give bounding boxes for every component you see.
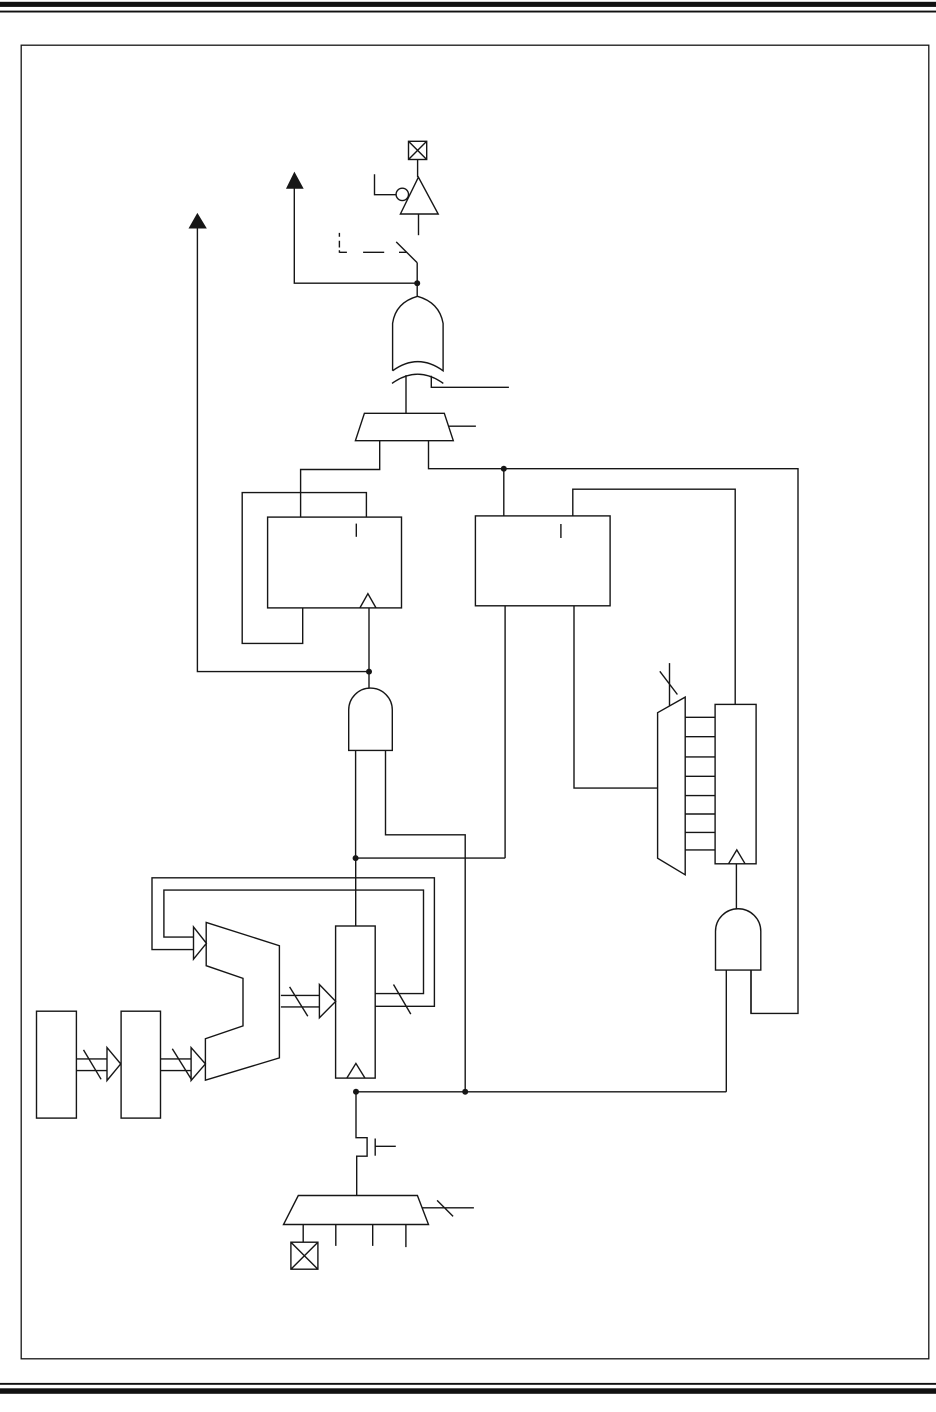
select slash of M4 [660, 671, 678, 694]
XOR gate G1 (pointing up) body [393, 296, 444, 371]
wire B1 clock to AND1 output [368, 608, 370, 688]
prescaler mux M2 (notched polygon) [205, 922, 279, 1080]
node E junction dot [353, 1089, 359, 1095]
bottom thin rule [0, 1383, 936, 1385]
wire U1 input stub [418, 214, 420, 235]
bus B3 to B4 arrowhead [107, 1048, 121, 1081]
wire B2 bottom-left output down [504, 606, 506, 858]
wire pin P1 to oscillator driver output [417, 160, 419, 178]
bus B4 to M2 arrowhead [191, 1048, 205, 1081]
clock triangle of R2 [729, 850, 746, 864]
inner feedback loop of R1 [164, 890, 424, 994]
wire M1 left output to box B1 top [301, 441, 380, 517]
wire G1 right input stub [431, 376, 509, 388]
box B1 (left register block) [268, 517, 402, 608]
wire M1 right output to node B [429, 441, 504, 469]
AND gate G3 (right, pointing up) [716, 909, 761, 970]
transistor Q1 gate bar [374, 1139, 376, 1156]
feedback loop around B1 [242, 493, 366, 644]
node D junction dot [353, 855, 359, 861]
wire G3 left input to node F rail [725, 970, 727, 1092]
transistor Q1 channel path [356, 1092, 367, 1196]
mux M1 select stub [449, 425, 476, 427]
node F junction dot [462, 1089, 468, 1095]
mux M3 (bottom trapezoid) [284, 1196, 429, 1225]
enable bubble on U1 [396, 188, 408, 200]
select stub of M3 [422, 1207, 474, 1209]
pin tick in B1 [355, 524, 357, 537]
select slash of M3 [437, 1200, 453, 1216]
wire B2 bottom-right output to mux M3 [574, 606, 658, 788]
bus slash on R1 loops [394, 985, 411, 1015]
outer feedback loop of R1 [152, 878, 434, 1007]
node C junction dot [366, 669, 372, 675]
pin tick in B2 [560, 524, 562, 538]
AND gate G2 (pointing up) [349, 688, 393, 750]
bus B3 to B4 slash [84, 1050, 102, 1079]
bus M2 to R1 slash [290, 987, 308, 1016]
box B3 (bottom-left small block) [37, 1011, 77, 1118]
box B4 (second small block) [121, 1011, 160, 1118]
wire G3 right input up-rail [750, 970, 752, 1013]
wire node B to box B2 top [503, 469, 505, 516]
mux M1 (trapezoid) [355, 413, 453, 440]
wire node D horizontal [356, 857, 506, 859]
bus arrowhead into prescaler mux M2 [194, 927, 207, 959]
XOR gate G1 input double-curve [392, 374, 443, 383]
wire G1 left input to mux M1 [405, 375, 407, 413]
wire arrow2 to node A [294, 188, 417, 283]
switch SW1 blade [396, 242, 417, 263]
pin pad P1 (crossed box, oscillator pin) [409, 141, 427, 159]
wire G2 left input to node D [355, 750, 357, 858]
box B2 (right register block) [475, 516, 610, 606]
select stub of M4 [669, 663, 671, 705]
output arrow 1 (filled, up) [190, 214, 206, 228]
wire R2 clock to AND2 output [735, 864, 737, 909]
bottom thick border bar [0, 1388, 936, 1394]
wire B2 top to register R2 top [573, 489, 735, 704]
input stubs below M3 [303, 1225, 406, 1248]
wire arrow1 to node C [197, 228, 369, 672]
pin pad P2 (crossed box, clock input pin) [291, 1242, 318, 1269]
clock triangle of R1 [347, 1063, 365, 1078]
node B junction dot [501, 466, 507, 472]
register R2 (right tall) [715, 704, 756, 863]
wire G2 right input to node F [386, 750, 466, 1091]
bus M2 to R1 shafts [281, 995, 320, 1007]
bus M2 to R1 arrowhead [319, 985, 335, 1018]
node A junction dot [414, 280, 420, 286]
wire node B to right rail and AND2 right input [504, 469, 798, 1014]
clock triangle of B1 [360, 594, 376, 608]
8 data lines M4 to R2 [685, 717, 715, 850]
oscillator driver U1 (tri-state buffer pointing up) [400, 177, 438, 214]
bus B4 to M2 shafts [161, 1059, 192, 1071]
register R1 (tall) [336, 926, 376, 1078]
bus B4 to M2 slash [172, 1049, 191, 1080]
transistor Q1 gate lead [375, 1145, 396, 1147]
dashed control line to SW1 [339, 233, 406, 253]
enable wire to U1 bubble [375, 174, 397, 195]
top thin rule [0, 11, 936, 13]
mux M4 (vertical parallelogram) [658, 697, 686, 875]
wire node A to XOR output [416, 283, 418, 296]
bus B3 to B4 shafts [76, 1059, 107, 1071]
wire node E horizontal [356, 1091, 726, 1093]
wire node D to register R1 top [355, 858, 357, 926]
top thick border bar [0, 2, 936, 7]
output arrow 2 (filled, up) [287, 173, 302, 188]
wire SW1 to node A [416, 263, 418, 284]
